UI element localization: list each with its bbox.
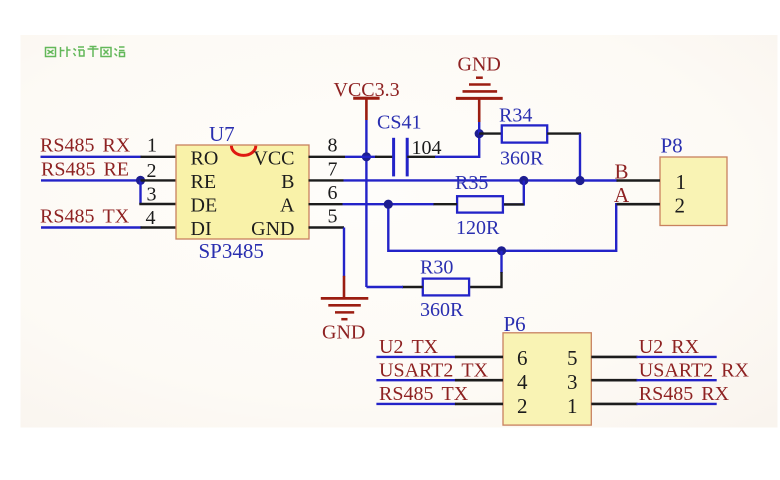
svg-text:USART2 RX: USART2 RX [639,359,750,381]
svg-text:RO: RO [191,148,219,170]
svg-text:3: 3 [147,184,157,206]
svg-text:7: 7 [328,158,338,180]
svg-text:360R: 360R [500,147,544,169]
svg-text:DI: DI [191,218,212,240]
pin U7.7 stub [309,179,344,181]
svg-text:R30: R30 [420,257,453,279]
capacitor CS41 [394,138,408,177]
svg-text:P8: P8 [661,133,683,157]
svg-text:GND: GND [322,322,365,344]
junction A/R30 [497,246,506,255]
svg-text:B: B [281,171,294,193]
power symbol VCC3.3 [334,79,400,120]
wire RS485_RE [41,179,141,181]
pin P6.5 stub [591,356,637,359]
svg-text:U7: U7 [209,122,235,146]
IC U7 notch mark [231,146,255,156]
junction GND node [475,129,484,138]
svg-text:RS485 RE: RS485 RE [41,158,129,180]
svg-text:2: 2 [675,193,686,217]
svg-text:4: 4 [146,207,156,229]
svg-text:U2 TX: U2 TX [379,336,439,358]
wire C right to GND node [407,156,436,158]
pin P6.1 stub [591,403,637,406]
pin U7.4 stub [141,226,177,228]
pin U7.2 stub [141,179,177,181]
wire B net [344,134,618,181]
watermark text (green CJK) [46,47,125,58]
svg-text:U2 RX: U2 RX [639,336,700,358]
svg-text:R35: R35 [455,172,488,194]
svg-text:A: A [280,195,295,217]
svg-text:360R: 360R [420,299,464,321]
junction B/R34 [575,176,584,185]
resistor R34 [479,125,581,142]
wire RE-DE tie [139,180,141,204]
ground symbol (top, inverted) [456,54,503,134]
svg-text:CS41: CS41 [377,111,421,133]
pin U7.5 stub [309,226,345,228]
wire U2_RX [637,356,717,358]
svg-text:2: 2 [147,160,157,182]
wire U2_TX [376,356,456,358]
pin P8.2 stub [617,203,661,206]
wire USART2_RX [637,379,717,381]
wire RS485_TX [41,226,142,228]
wire RS485_RX [41,156,142,158]
svg-text:120R: 120R [456,217,500,239]
svg-text:VCC: VCC [253,148,294,170]
pin P8.1 stub [617,179,661,182]
svg-text:SP3485: SP3485 [199,239,264,263]
svg-text:DE: DE [191,195,218,217]
resistor R35 [433,181,524,213]
pin P6.3 stub [591,379,637,382]
svg-text:USART2 TX: USART2 TX [379,359,489,381]
junction A/R35 [384,200,393,209]
pin P6.2 stub [455,403,503,406]
wire RS485_RX (P6) [637,403,717,405]
svg-text:6: 6 [328,182,338,204]
svg-text:1: 1 [567,394,578,418]
junction VCC/pin8 [362,152,371,161]
svg-text:5: 5 [567,346,578,370]
svg-text:8: 8 [328,135,338,157]
svg-text:5: 5 [328,206,338,228]
svg-text:104: 104 [412,137,442,159]
pin U7.1 stub [141,156,177,158]
svg-text:RS485 RX: RS485 RX [639,383,730,405]
svg-text:GND: GND [251,218,294,240]
svg-text:R34: R34 [499,105,532,127]
svg-text:3: 3 [567,370,578,394]
svg-text:RE: RE [191,171,217,193]
svg-text:1: 1 [147,135,157,157]
junction RE/DE [136,176,145,185]
svg-text:2: 2 [517,394,528,418]
ground symbol (bottom) [321,276,369,344]
wire pin8 to C [345,156,377,158]
svg-text:4: 4 [517,370,528,394]
connector P6 body [503,333,591,425]
svg-text:RS485 TX: RS485 TX [40,205,130,227]
svg-text:1: 1 [676,170,687,194]
svg-text:RS485 TX: RS485 TX [379,383,469,405]
svg-text:P6: P6 [504,312,526,336]
pin U7.3 stub [139,203,176,205]
svg-text:6: 6 [517,346,528,370]
connector P8 body [660,157,727,226]
wire RS485_TX (P6) [376,403,456,405]
wire A net [343,204,618,251]
wire USART2_TX [376,379,456,381]
wire pin5 to ground [343,228,345,277]
resistor R30 [366,251,501,296]
wire VCC vertical [365,120,367,287]
IC U7 body [176,145,309,239]
svg-text:RS485 RX: RS485 RX [40,135,131,157]
svg-text:GND: GND [458,54,501,76]
pin U7.6 stub [309,203,343,205]
pin U7.8 stub [309,156,346,158]
junction B/R35 [519,176,528,185]
pin P6.6 stub [455,356,503,359]
pin P6.4 stub [455,379,503,382]
